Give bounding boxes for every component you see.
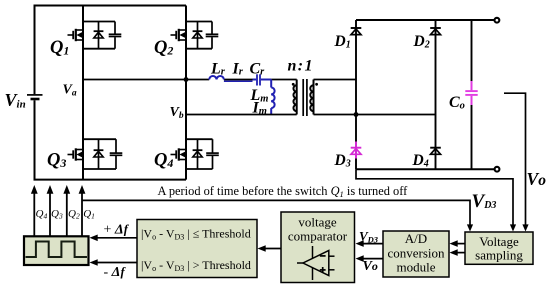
node junction dot at leg2 / Va line bbox=[184, 77, 189, 82]
inductor Lm (magnetizing) bbox=[271, 80, 274, 115]
output terminal plus bbox=[495, 18, 500, 23]
Q3 snubber branch (body diode + capacitor) bbox=[83, 139, 122, 169]
wire Va resonant top line bbox=[83, 79, 253, 81]
annotation text: a period of time bbox=[158, 184, 409, 199]
wire blue underline Lr to Cr bbox=[224, 80, 253, 82]
wire leg 2 (Q2/Q4 leg) bbox=[185, 6, 187, 180]
label Lr bbox=[210, 61, 226, 78]
label Va bbox=[63, 83, 77, 99]
threshold box line 2 bbox=[141, 258, 251, 273]
transformer primary polarity dot bbox=[292, 83, 295, 86]
threshold decision box bbox=[137, 220, 257, 278]
transformer secondary winding bbox=[310, 80, 313, 115]
voltage comparator box bbox=[281, 212, 355, 283]
svg-text:voltage: voltage bbox=[298, 215, 336, 230]
wire rectifier top rail bbox=[356, 19, 495, 21]
label Vb bbox=[170, 105, 184, 121]
label Vo output bbox=[527, 169, 547, 189]
arrow head trigger into sampling box bbox=[467, 224, 473, 231]
transistor Q1 (MOSFET on leg1 top) bbox=[68, 29, 84, 41]
label Q3 bbox=[47, 151, 66, 171]
capacitor Co (magenta) bbox=[465, 81, 477, 105]
output terminal minus bbox=[495, 167, 500, 172]
gate drive arrow Q1 bbox=[79, 185, 86, 237]
svg-text:comparator: comparator bbox=[288, 229, 348, 244]
transformer secondary polarity dot bbox=[315, 83, 318, 86]
threshold box line 1 bbox=[141, 227, 251, 242]
svg-text:n:1: n:1 bbox=[288, 58, 314, 75]
A/D text bbox=[387, 231, 445, 275]
PWM square wave bbox=[26, 242, 88, 258]
arrow head Vo sense into sampling box bbox=[522, 224, 528, 231]
wire top rail of bridge bbox=[35, 5, 187, 7]
gate drive arrow Q4 bbox=[31, 185, 38, 237]
voltage comparator text bbox=[288, 215, 348, 244]
label D2 bbox=[413, 33, 430, 51]
label Im bbox=[252, 100, 267, 118]
label Q1 bbox=[50, 38, 69, 58]
transistor Q2 (MOSFET on leg2 top) bbox=[171, 29, 187, 41]
wire -Delta f into PWM bbox=[90, 259, 138, 266]
wire +Delta f into PWM bbox=[90, 235, 138, 242]
capacitor Co leg wire bbox=[471, 20, 473, 169]
label Vin bbox=[5, 90, 26, 111]
label Q4 bbox=[154, 151, 173, 171]
wire VD3 sampling trigger line from Q1 gate bbox=[82, 200, 470, 227]
svg-text:|Vo - VD3 | ≤ Threshold: |Vo - VD3 | ≤ Threshold bbox=[141, 227, 251, 242]
label +Delta f bbox=[104, 223, 130, 238]
label Ir bbox=[232, 61, 244, 78]
gate drive arrow Q2 bbox=[63, 185, 70, 237]
svg-text:sampling: sampling bbox=[475, 248, 523, 263]
wire sampling to A/D lower bbox=[450, 249, 466, 256]
wire A/D to comparator VD3 bbox=[356, 240, 384, 247]
label Co bbox=[449, 94, 465, 112]
svg-text:A/D: A/D bbox=[405, 231, 427, 246]
label VD3 near sampling bbox=[472, 191, 497, 212]
wire rectifier bottom rail bbox=[356, 168, 495, 170]
transistor Q4 (MOSFET on leg2 bottom) bbox=[171, 148, 187, 160]
svg-text:Vo: Vo bbox=[527, 169, 547, 189]
wire Cr to primary bbox=[271, 79, 297, 81]
svg-text:- Δf: - Δf bbox=[104, 265, 127, 280]
capacitor Cr bbox=[253, 74, 272, 85]
wire D2-D4 leg bbox=[435, 20, 437, 169]
gate drive arrow Q3 bbox=[47, 185, 54, 237]
wire A/D to comparator Vo bbox=[356, 255, 384, 262]
label D1 bbox=[334, 33, 351, 51]
battery Vin bbox=[27, 95, 43, 100]
label Q2 bbox=[154, 38, 173, 58]
diode D1 bbox=[351, 28, 362, 35]
label Cr bbox=[250, 61, 266, 78]
label Lm bbox=[250, 87, 269, 105]
label VD3 between A/D and comparator bbox=[359, 229, 379, 245]
voltage sampling box bbox=[465, 232, 533, 264]
wire minus-rail sense line to sampling bbox=[356, 169, 513, 227]
wire D1-D3 leg bbox=[355, 20, 357, 169]
wire left rail lower bbox=[34, 100, 36, 180]
arrow head minus-rail sense into sampling box bbox=[510, 224, 516, 231]
label Vo between A/D and comparator bbox=[363, 259, 378, 274]
wire secondary bottom / mid rail to D2-D4 leg bbox=[314, 114, 436, 116]
svg-text:Vo: Vo bbox=[363, 259, 378, 274]
transformer core bbox=[303, 79, 307, 116]
svg-text:conversion: conversion bbox=[387, 246, 445, 261]
wire left rail upper (Vin plus lead) bbox=[34, 5, 36, 95]
inductor Lr bbox=[209, 76, 224, 79]
wire Vo sense line to sampling bbox=[504, 93, 526, 227]
Q4 snubber branch (body diode + capacitor) bbox=[186, 139, 219, 169]
wire sampling to A/D upper bbox=[450, 240, 466, 247]
transistor Q3 (MOSFET on leg1 bottom) bbox=[68, 148, 84, 160]
wire bottom rail of bridge bbox=[34, 179, 187, 181]
svg-text:A period of time before the sw: A period of time before the switch Q1 is… bbox=[158, 184, 409, 199]
diode D4 bbox=[430, 148, 441, 155]
svg-text:|Vo - VD3 | > Threshold: |Vo - VD3 | > Threshold bbox=[141, 258, 251, 273]
wire secondary top to rectifier bbox=[314, 79, 357, 81]
A/D conversion module box bbox=[383, 231, 449, 277]
voltage sampling text bbox=[475, 234, 523, 263]
diode D2 bbox=[430, 28, 441, 35]
Q2 snubber branch (body diode + capacitor) bbox=[186, 22, 218, 49]
node junction dot mid rail at D1-D3 leg bbox=[354, 112, 359, 117]
transformer T primary winding bbox=[293, 80, 296, 115]
wire Vb line to transformer bottom bbox=[186, 114, 297, 116]
wire comparator to threshold box bbox=[258, 245, 282, 252]
gate labels Q4 Q3 Q2 Q1 bbox=[36, 208, 95, 221]
label n:1 bbox=[288, 58, 314, 75]
label -Delta f bbox=[104, 265, 127, 280]
op-amp U1 inside comparator bbox=[297, 246, 335, 280]
wire leg 1 (Q1/Q3 leg) bbox=[82, 6, 84, 180]
svg-text:+ Δf: + Δf bbox=[104, 223, 130, 238]
diode D3 (magenta) bbox=[351, 142, 362, 159]
label D4 bbox=[412, 152, 429, 170]
svg-text:module: module bbox=[397, 260, 436, 275]
label D3 bbox=[334, 152, 351, 170]
Q1 snubber branch (body diode + capacitor) bbox=[83, 22, 121, 49]
PWM generator box bbox=[24, 236, 89, 265]
